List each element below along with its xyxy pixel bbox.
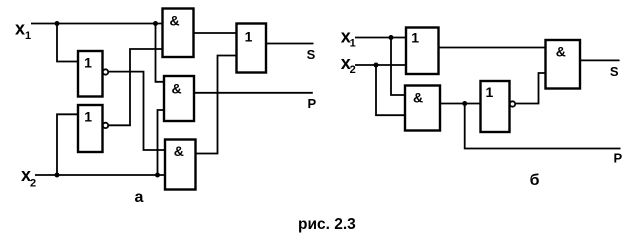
label x1 (circuit b) [341, 27, 356, 50]
node x1-to-AND junction (b) [389, 35, 394, 40]
svg-text:&: & [169, 12, 179, 28]
wire S output line (b) [580, 59, 620, 61]
AND gate A3 bottom (&) [165, 140, 196, 190]
wire B2 output to NOT gate input (b) [440, 103, 481, 105]
svg-text:б: б [530, 172, 540, 189]
wire B1 output to AND S input 1 (b) [439, 47, 546, 49]
svg-text:1: 1 [25, 30, 31, 42]
wire P line (b) [465, 104, 621, 149]
wire x1 input line (b) [355, 37, 406, 39]
wire x2 to NOT gate G2 input [57, 114, 78, 175]
svg-text:S: S [307, 47, 316, 62]
svg-text:а: а [135, 189, 144, 206]
node x2-to-A2 junction [155, 173, 160, 178]
svg-text:&: & [174, 143, 184, 159]
AND gate A2 middle (&) [164, 76, 194, 121]
AND gate B2 (&) circuit b [405, 86, 440, 131]
svg-text:1: 1 [350, 38, 356, 50]
svg-text:1: 1 [486, 84, 494, 100]
label x2 (circuit b) [341, 53, 356, 76]
OR gate S (1) circuit a [237, 24, 267, 73]
AND gate A1 top (&) [163, 9, 194, 58]
G1 output inversion bubble [103, 69, 108, 74]
svg-text:2: 2 [30, 177, 36, 189]
wire A2 output = P line (a) [194, 92, 313, 94]
NOT gate G2 (1) [78, 105, 103, 152]
node B2-output-to-P junction (b) [462, 101, 467, 106]
svg-text:1: 1 [411, 29, 419, 45]
wire S output line (a) [266, 43, 314, 45]
wire B3 output to AND S input 2 (b) [516, 73, 546, 104]
wire x2 to AND B2 input 2 (b) [376, 65, 405, 115]
svg-text:x: x [15, 19, 25, 39]
OR gate B1 (1) circuit b [406, 28, 439, 75]
svg-text:1: 1 [245, 29, 253, 45]
svg-text:&: & [172, 81, 182, 97]
wire A1 output to OR gate input 1 [194, 32, 237, 34]
wire x2 input line (a) [35, 174, 165, 176]
node x1-to-AND-A2 junction [153, 21, 158, 26]
node x1-to-NOT-G1 junction [55, 21, 60, 26]
node x2-to-AND junction (b) [374, 63, 379, 68]
svg-text:S: S [610, 64, 619, 79]
wire A3 output to OR gate input 2 [196, 56, 237, 154]
wire x2 input line (b) [355, 64, 406, 66]
wire x1 to AND B2 input 1 (b) [391, 38, 405, 96]
svg-text:2: 2 [350, 64, 356, 76]
svg-text:&: & [556, 43, 566, 59]
wire x2 to AND A2 input 2 [158, 110, 165, 175]
NOT gate B3 (1) circuit b [481, 81, 510, 132]
NOT gate G1 (1) [78, 51, 103, 97]
wire x1 to NOT gate G1 input [57, 24, 78, 62]
node x2-to-G2 junction [55, 173, 60, 178]
AND gate B4 output S (&) circuit b [546, 40, 581, 89]
wire x1 input line (a) [31, 23, 163, 25]
B3 output inversion bubble [510, 101, 515, 106]
svg-text:P: P [307, 96, 316, 111]
label x2 (circuit a) [21, 165, 36, 189]
G2 output inversion bubble [103, 123, 108, 128]
label x1 (circuit a) [15, 19, 31, 42]
svg-text:&: & [413, 90, 423, 106]
svg-text:рис. 2.3: рис. 2.3 [298, 216, 356, 233]
wire x1 to AND A2 input 1 [156, 24, 165, 82]
svg-text:1: 1 [84, 109, 92, 125]
wire G1 output to AND A3 input 1 [109, 72, 166, 150]
svg-text:1: 1 [84, 55, 92, 71]
wire G2 output to AND A1 input 2 [109, 49, 163, 125]
svg-text:P: P [613, 151, 622, 166]
